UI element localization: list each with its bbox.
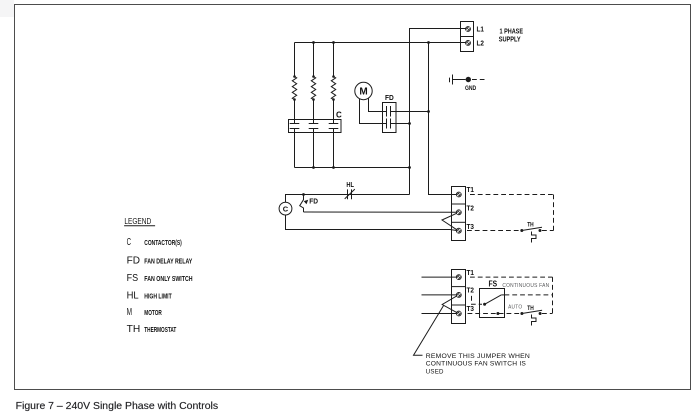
svg-text:CONTINUOUS FAN SWITCH IS: CONTINUOUS FAN SWITCH IS — [426, 361, 526, 368]
contactor pole 1 contact bars — [290, 123, 300, 125]
FS blade — [485, 295, 502, 304]
high limit HL normally-closed contact — [345, 189, 355, 199]
svg-text:FS: FS — [127, 273, 139, 284]
node junction bottom bus to bus A — [408, 166, 411, 169]
svg-text:TH: TH — [527, 221, 534, 228]
wire motor left lead — [360, 99, 387, 124]
wire bus B down to T1 — [429, 43, 457, 195]
wire heater column 2 upper — [313, 43, 315, 77]
dashed wire T2 to FS common — [472, 296, 483, 304]
contactor pole 3 contact bars — [329, 123, 339, 125]
svg-text:M: M — [127, 307, 132, 318]
svg-text:MOTOR: MOTOR — [144, 308, 162, 317]
wire heater column 3 to contactor — [333, 100, 335, 124]
lower terminal block — [452, 270, 466, 324]
FD relay heater element — [300, 195, 309, 213]
svg-text:M: M — [359, 87, 367, 98]
wire heater column 2 below contactor — [313, 129, 315, 168]
svg-text:FD: FD — [127, 256, 140, 267]
svg-text:HL: HL — [346, 182, 354, 189]
svg-text:T2: T2 — [467, 204, 475, 213]
contactor coil C — [279, 202, 292, 215]
thermostat TH contact (lower) — [520, 310, 542, 325]
dashed wire continuous fan path — [505, 294, 553, 296]
svg-text:C: C — [127, 237, 131, 248]
contactor C main contact box — [289, 120, 342, 133]
note text remove jumper — [426, 353, 530, 375]
dashed wire T3 to thermostat — [467, 230, 520, 232]
wire stub to T1 lower — [422, 276, 457, 278]
wire C coil to T3 — [286, 215, 457, 231]
svg-text:C: C — [336, 111, 342, 120]
terminal L2 screw — [466, 41, 471, 46]
wire heater column 1 upper — [294, 43, 296, 77]
wire HL row bus A corner to C coil — [286, 195, 410, 203]
resistor heater element 3 — [331, 75, 335, 101]
wire stub to T2 lower — [422, 294, 457, 296]
svg-text:HIGH LIMIT: HIGH LIMIT — [144, 291, 172, 300]
wire L1 supply feeder — [410, 29, 466, 195]
wire heater column 1 below contactor — [294, 129, 296, 168]
wire L2 / top heater bus — [295, 42, 466, 44]
svg-text:T2: T2 — [467, 285, 475, 294]
wire heater column 1 to contactor — [294, 100, 296, 124]
wire bottom heater bus — [295, 167, 410, 169]
svg-text:TH: TH — [527, 305, 534, 312]
node junction bus B top — [427, 41, 430, 44]
node junction FD lower / bus A — [408, 122, 411, 125]
fan delay relay FD contact box — [383, 103, 397, 133]
dashed wire T1 to right bus (lower) — [470, 276, 553, 278]
FS common contact — [483, 303, 486, 306]
FS auto contact — [496, 312, 499, 315]
resistor heater element 1 — [292, 75, 296, 101]
leader line to jumper note — [414, 306, 444, 356]
FD lower contact bars — [386, 119, 388, 129]
svg-text:USED: USED — [426, 368, 444, 375]
wire heater column 2 to contactor — [313, 100, 315, 124]
svg-text:CONTACTOR(S): CONTACTOR(S) — [144, 238, 182, 247]
fan only switch FS box — [480, 289, 505, 318]
wire motor right lead — [369, 99, 387, 112]
svg-text:REMOVE THIS JUMPER WHEN: REMOVE THIS JUMPER WHEN — [426, 353, 530, 360]
dashed wire T1 to thermostat loop — [470, 194, 554, 196]
wire FD upper to bus B — [391, 111, 429, 113]
dashed wire auto path T3 to TH — [468, 313, 520, 315]
svg-text:TH: TH — [127, 324, 141, 335]
middle terminal block — [452, 187, 466, 241]
svg-text:T1: T1 — [467, 185, 475, 194]
wire stub to T3 lower — [422, 313, 457, 315]
dashed wire TH to right bus (middle) — [542, 230, 554, 232]
svg-text:L1: L1 — [477, 24, 485, 33]
svg-text:FAN DELAY RELAY: FAN DELAY RELAY — [144, 257, 192, 266]
ground symbol — [450, 75, 485, 85]
svg-text:CONTINUOUS FAN: CONTINUOUS FAN — [502, 283, 549, 289]
node junction FD heater tap — [302, 193, 305, 196]
terminal T3 screw — [456, 228, 461, 233]
svg-text:T1: T1 — [467, 268, 475, 277]
svg-text:HL: HL — [127, 290, 140, 301]
svg-text:FS: FS — [489, 280, 498, 289]
node junction col3 top — [332, 41, 335, 44]
svg-text:SUPPLY: SUPPLY — [499, 36, 521, 43]
thermostat TH contact (middle) — [520, 227, 542, 242]
terminal L1 screw — [466, 27, 471, 32]
svg-text:L2: L2 — [477, 38, 485, 47]
terminal T1 screw — [456, 275, 461, 280]
svg-text:T3: T3 — [467, 222, 475, 231]
resistor heater element 2 — [311, 75, 315, 101]
contactor pole 2 contact bars — [309, 123, 319, 125]
svg-text:Figure 7 – 240V Single Phase w: Figure 7 – 240V Single Phase with Contro… — [16, 400, 219, 412]
wire FD heater to T2 — [304, 211, 457, 213]
svg-text:1 PHASE: 1 PHASE — [500, 28, 524, 35]
node junction FD upper / bus B — [427, 110, 430, 113]
node junction col2 top — [312, 41, 315, 44]
svg-text:FAN ONLY SWITCH: FAN ONLY SWITCH — [144, 274, 192, 283]
terminal T1 screw — [456, 192, 461, 197]
FD upper contact bars — [386, 106, 388, 117]
dashed wire TH to right bus (lower) — [542, 313, 553, 315]
dashed wire right vertical (lower) — [552, 277, 554, 313]
node junction col2 bottom — [312, 166, 315, 169]
svg-text:C: C — [283, 204, 289, 213]
svg-text:GND: GND — [465, 85, 477, 92]
dashed wire right vertical (middle) — [553, 195, 555, 231]
svg-text:AUTO: AUTO — [508, 305, 522, 311]
terminal T2 screw — [456, 210, 461, 215]
svg-text:FD: FD — [309, 199, 318, 206]
wire FD lower to bus A — [391, 123, 410, 125]
wire heater column 3 upper — [333, 43, 335, 77]
terminal T2 screw — [456, 293, 461, 298]
svg-text:T3: T3 — [467, 304, 475, 313]
motor M circle — [355, 82, 372, 99]
terminal T3 screw — [456, 311, 461, 316]
svg-text:FD: FD — [385, 95, 394, 102]
svg-text:LEGEND: LEGEND — [124, 216, 151, 226]
supply terminal block — [461, 22, 474, 52]
jumper T2-T3 middle block — [442, 213, 457, 230]
svg-text:THERMOSTAT: THERMOSTAT — [144, 325, 176, 334]
jumper T2-T3 lower block (removable) — [442, 296, 457, 313]
wire heater column 3 below contactor — [333, 129, 335, 168]
node junction col3 bottom — [332, 166, 335, 169]
